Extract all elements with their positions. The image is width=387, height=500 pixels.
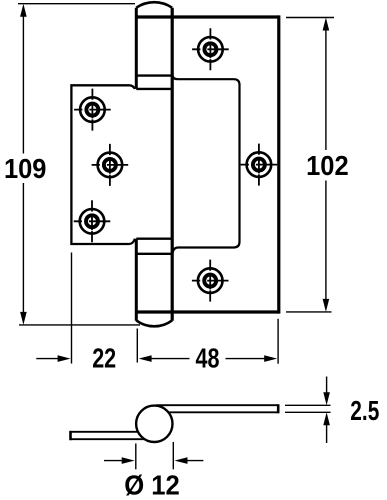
right leaf top edge bbox=[136, 15, 278, 18]
svg-text:2.5: 2.5 bbox=[350, 395, 379, 426]
recess outline in right leaf (rounded rectangle) bbox=[172, 76, 239, 253]
extension line bottom bbox=[19, 324, 140, 326]
screw hole upper-left (left leaf) bbox=[74, 89, 111, 131]
left leaf side profile bbox=[70, 431, 145, 440]
knuckle joint line lower B bbox=[136, 253, 172, 255]
svg-text:48: 48 bbox=[196, 343, 220, 374]
knuckle joint line upper A bbox=[136, 74, 172, 76]
svg-text:Ø 12: Ø 12 bbox=[124, 470, 180, 500]
screw hole middle-left (left leaf) bbox=[92, 144, 129, 186]
extension line bottom bbox=[286, 311, 332, 313]
right leaf bottom edge bbox=[136, 310, 278, 313]
left leaf outline bbox=[71, 85, 134, 244]
extension line top bbox=[286, 17, 334, 19]
extension line thickness bottom bbox=[285, 411, 331, 413]
hinge barrel left edge lower segment bbox=[135, 239, 138, 321]
svg-text:22: 22 bbox=[92, 343, 116, 374]
arrow 22 right-pointing bbox=[58, 355, 71, 362]
screw hole bottom (right leaf) bbox=[192, 260, 229, 302]
arrow 109 up bbox=[20, 4, 27, 17]
right leaf side profile bbox=[156, 404, 279, 413]
barrel cross-section circle bbox=[136, 406, 172, 442]
knuckle joint line lower A bbox=[136, 237, 172, 239]
extension line circle left bbox=[135, 444, 137, 470]
screw hole top (right leaf) bbox=[192, 28, 229, 70]
dimension line 109 bbox=[22, 15, 24, 313]
arrow 2.5 up bbox=[323, 412, 330, 425]
dimension line 22 tail bbox=[36, 358, 58, 360]
extension line left leaf edge bbox=[71, 253, 73, 364]
arrow 102 down bbox=[323, 299, 330, 312]
barrel top dome cap bbox=[136, 2, 172, 7]
screw hole lower-left (left leaf) bbox=[74, 200, 111, 242]
svg-text:102: 102 bbox=[306, 150, 349, 181]
dimension line 102 bbox=[325, 29, 327, 301]
extension line top bbox=[18, 3, 135, 5]
screw hole middle-right (right leaf) bbox=[241, 144, 278, 186]
arrow tails bbox=[104, 460, 203, 462]
extension line thickness top bbox=[285, 404, 331, 406]
arrow tails bbox=[326, 377, 328, 444]
barrel bottom dome cap bbox=[136, 320, 172, 326]
right leaf right edge bbox=[277, 15, 280, 313]
arrow diameter left (right-pointing) bbox=[122, 457, 135, 464]
extension line barrel edge bbox=[136, 329, 138, 363]
dimension line 48 bbox=[151, 358, 266, 360]
arrow 102 up bbox=[323, 18, 330, 31]
extension line right leaf edge bbox=[277, 319, 279, 364]
arrow 48 left-pointing bbox=[139, 355, 152, 362]
arrow 109 down bbox=[20, 312, 27, 325]
arrow diameter right (left-pointing) bbox=[175, 457, 188, 464]
extension line circle right bbox=[172, 442, 174, 469]
hinge barrel right edge bbox=[171, 8, 174, 321]
arrow 48 right-pointing bbox=[264, 355, 277, 362]
hinge barrel left edge upper segment bbox=[135, 8, 138, 89]
svg-text:109: 109 bbox=[4, 153, 47, 184]
arrow 2.5 down bbox=[323, 392, 330, 405]
knuckle joint line upper B bbox=[136, 88, 172, 90]
